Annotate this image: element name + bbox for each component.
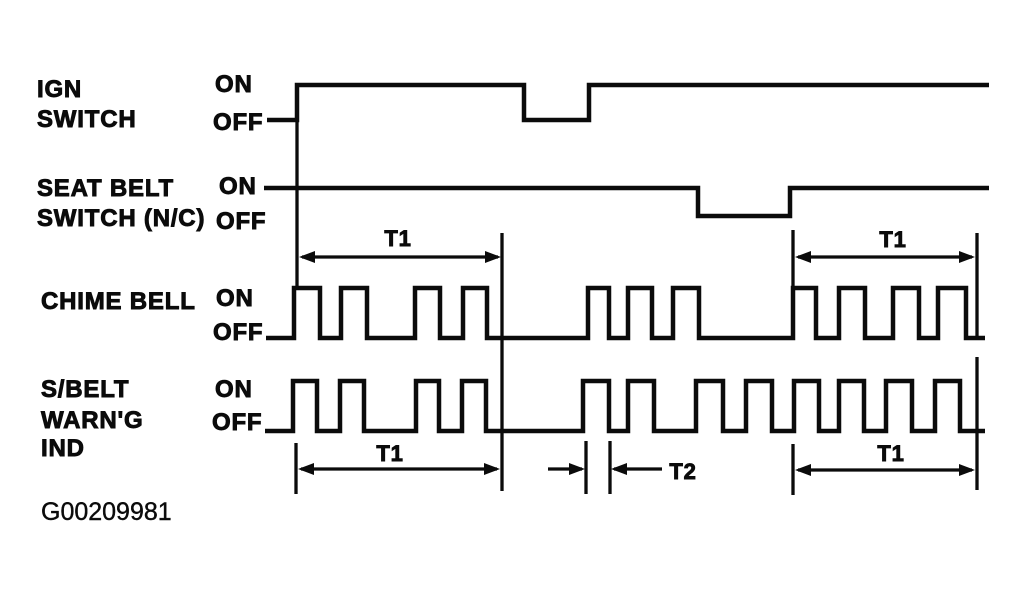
svg-text:ON: ON bbox=[215, 376, 253, 403]
svg-text:S/BELT: S/BELT bbox=[41, 376, 129, 403]
svg-text:T1: T1 bbox=[879, 227, 906, 252]
svg-text:CHIME BELL: CHIME BELL bbox=[41, 288, 196, 315]
node vertical extension line at x=297 upper bbox=[295, 122, 298, 290]
wire SEAT BELT waveform bbox=[264, 188, 989, 216]
dimension arrow T2 right bbox=[611, 463, 662, 475]
node vertical extension line at x=977 upper bbox=[975, 233, 978, 339]
node vertical extension line at x=297 lower tick bbox=[294, 443, 297, 494]
node vertical extension line at x=502 bbox=[500, 233, 503, 491]
svg-text:OFF: OFF bbox=[213, 319, 263, 346]
svg-text:SWITCH (N/C): SWITCH (N/C) bbox=[37, 205, 205, 232]
svg-text:SWITCH: SWITCH bbox=[37, 106, 136, 133]
dimension arrow T1 top-left bbox=[299, 251, 501, 263]
node T2 tick right x=610 bbox=[608, 441, 611, 494]
dimension arrow T1 bottom-left bbox=[298, 463, 500, 475]
svg-text:SEAT BELT: SEAT BELT bbox=[37, 175, 174, 202]
wire IGN SWITCH waveform bbox=[267, 85, 989, 120]
svg-text:G00209981: G00209981 bbox=[41, 498, 172, 526]
dimension arrow T2 left bbox=[548, 463, 585, 475]
svg-text:ON: ON bbox=[215, 71, 253, 98]
svg-text:T1: T1 bbox=[384, 226, 411, 251]
svg-text:ON: ON bbox=[219, 173, 257, 200]
node vertical extension line at x=793 upper bbox=[791, 230, 794, 290]
svg-text:WARN'G: WARN'G bbox=[41, 407, 144, 434]
svg-text:OFF: OFF bbox=[212, 409, 262, 436]
dimension arrow T1 bottom-right bbox=[795, 464, 975, 476]
svg-text:T2: T2 bbox=[669, 459, 696, 484]
dimension arrow T1 top-right bbox=[795, 251, 975, 263]
svg-text:OFF: OFF bbox=[216, 208, 266, 235]
label SEAT BELT SWITCH (N/C) bbox=[37, 175, 205, 232]
node vertical extension line at x=793 lower tick bbox=[791, 444, 794, 495]
svg-text:IND: IND bbox=[41, 435, 85, 462]
node T2 tick left x=586 bbox=[584, 441, 587, 494]
wire S/BELT WARN'G IND waveform bbox=[265, 381, 985, 431]
svg-text:OFF: OFF bbox=[213, 109, 263, 136]
label S/BELT WARN'G IND bbox=[41, 376, 144, 462]
svg-text:ON: ON bbox=[216, 285, 254, 312]
svg-text:IGN: IGN bbox=[37, 76, 82, 103]
svg-text:T1: T1 bbox=[376, 441, 403, 466]
wire CHIME BELL waveform bbox=[266, 288, 985, 338]
svg-text:T1: T1 bbox=[877, 441, 904, 466]
node vertical extension line at x=977 lower bbox=[975, 357, 978, 490]
label IGN SWITCH bbox=[37, 76, 136, 133]
